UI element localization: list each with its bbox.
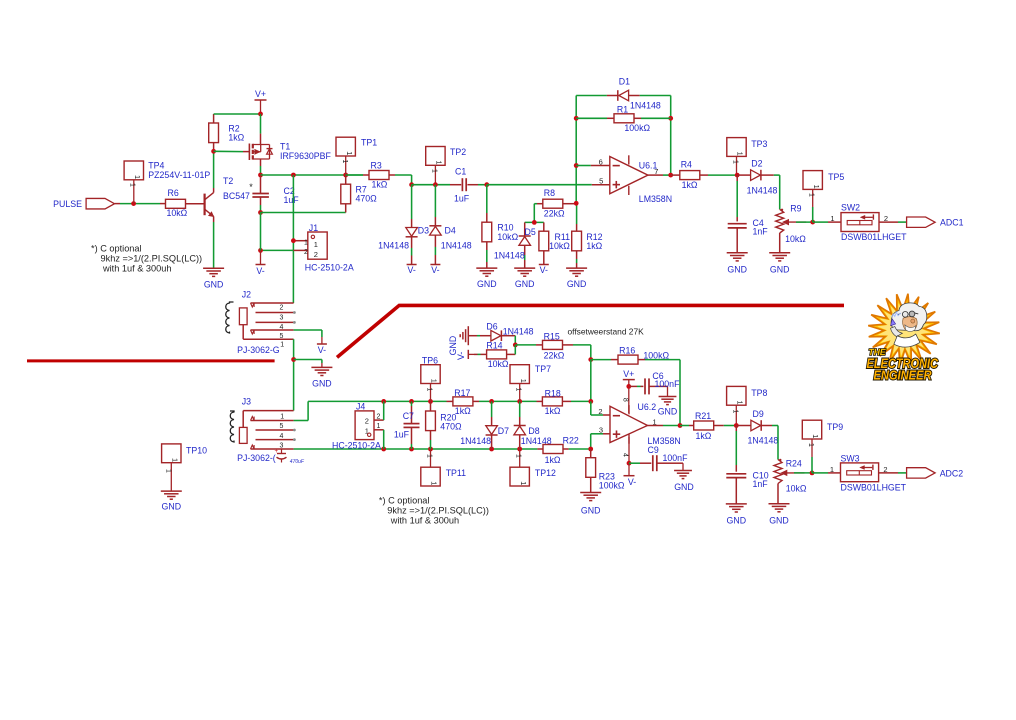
svg-text:D9: D9 xyxy=(753,409,764,419)
svg-text:J4: J4 xyxy=(356,402,365,412)
wire R2 top to V+ xyxy=(214,113,261,115)
svg-text:470Ω: 470Ω xyxy=(356,194,378,204)
ground under R24 xyxy=(769,504,790,526)
svg-text:4: 4 xyxy=(622,453,629,457)
node J1 pin2 wire junction xyxy=(258,248,263,253)
svg-text:ENGINEER: ENGINEER xyxy=(874,367,933,382)
svg-text:D3: D3 xyxy=(418,226,429,236)
svg-text:TP4: TP4 xyxy=(148,160,164,170)
resistor R1 xyxy=(576,104,671,133)
svg-text:1kΩ: 1kΩ xyxy=(545,406,561,416)
wire D2 to R9 xyxy=(774,175,780,209)
wire rail to opamp plus xyxy=(487,184,610,186)
svg-text:TP7: TP7 xyxy=(535,364,551,374)
svg-text:100kΩ: 100kΩ xyxy=(624,123,650,133)
svg-text:1N4148: 1N4148 xyxy=(441,240,472,250)
ground under R23 xyxy=(580,493,601,516)
svg-text:R24: R24 xyxy=(786,458,802,468)
svg-text:10kΩ: 10kΩ xyxy=(488,359,509,369)
svg-text:10kΩ: 10kΩ xyxy=(549,241,570,251)
node rail c7 top xyxy=(409,399,414,404)
node PULSE junction xyxy=(131,201,136,206)
testpoint TP4 xyxy=(124,160,210,203)
svg-text:1: 1 xyxy=(345,151,354,155)
node rail j4 bottom xyxy=(381,447,386,452)
resistor R2 xyxy=(209,114,245,151)
svg-text:GND: GND xyxy=(162,502,182,512)
transistor T1 IRF9630PBF xyxy=(249,141,331,161)
svg-text:T2: T2 xyxy=(223,176,233,186)
svg-text:1kΩ: 1kΩ xyxy=(682,180,698,190)
resistor R7 xyxy=(341,175,377,213)
svg-text:1: 1 xyxy=(807,443,814,447)
wire pin6 xyxy=(576,165,610,167)
svg-text:V+: V+ xyxy=(623,369,634,379)
resistor R20 xyxy=(426,401,462,449)
svg-text:1: 1 xyxy=(515,388,522,392)
svg-text:1: 1 xyxy=(129,183,136,187)
resistor R8 xyxy=(534,188,576,222)
svg-text:1: 1 xyxy=(812,185,821,189)
diode D8 xyxy=(514,401,552,449)
svg-text:IRF9630PBF: IRF9630PBF xyxy=(280,151,331,161)
node fb left R8 xyxy=(574,201,579,206)
wire D6 corner xyxy=(514,336,516,345)
resistor R18 xyxy=(537,388,572,416)
svg-text:1: 1 xyxy=(365,427,369,436)
svg-text:GND: GND xyxy=(477,279,497,289)
capacitor C6 xyxy=(629,371,680,396)
wire R9 wiper xyxy=(796,221,813,223)
svg-text:1: 1 xyxy=(808,193,815,197)
svg-text:1: 1 xyxy=(811,434,820,438)
svg-text:GND: GND xyxy=(567,279,587,289)
transistor T2 BC547 xyxy=(205,176,250,217)
svg-text:3: 3 xyxy=(280,442,284,449)
ground under C6 xyxy=(658,397,678,417)
wire pin3 xyxy=(591,434,610,449)
svg-text:TP2: TP2 xyxy=(450,147,466,157)
svg-text:2: 2 xyxy=(598,407,602,416)
svg-text:1: 1 xyxy=(280,413,284,420)
svg-text:LM358N: LM358N xyxy=(639,194,672,204)
svg-text:GND: GND xyxy=(581,506,601,516)
svg-text:4: 4 xyxy=(280,433,284,440)
svg-text:1kΩ: 1kΩ xyxy=(545,455,561,465)
wire D1 row right xyxy=(629,95,671,97)
svg-text:V-: V- xyxy=(318,345,326,355)
svg-text:9khz =>1/(2.PI.SQL(LC)): 9khz =>1/(2.PI.SQL(LC)) xyxy=(387,506,489,516)
wire R3 corner down xyxy=(411,175,413,185)
svg-text:100nF: 100nF xyxy=(655,379,681,389)
diode D7 xyxy=(460,401,509,449)
wire bottom top rail xyxy=(308,400,591,402)
ground under TP10 xyxy=(161,491,182,511)
wire T1 drain xyxy=(260,159,262,175)
potentiometer R24 xyxy=(774,458,807,503)
svg-text:1: 1 xyxy=(314,240,318,249)
svg-text:TP3: TP3 xyxy=(751,139,767,149)
wire signal rail xyxy=(412,184,450,186)
wire D5 R11 link xyxy=(525,221,544,223)
svg-text:2: 2 xyxy=(304,249,308,256)
node fb left pin6 xyxy=(574,163,579,168)
ground under R12 xyxy=(566,268,587,289)
svg-text:1: 1 xyxy=(426,454,433,458)
op-amp U6.2 LM358N xyxy=(598,402,680,446)
svg-text:C1: C1 xyxy=(455,167,466,177)
svg-text:1: 1 xyxy=(430,481,439,485)
capacitor C4 xyxy=(728,175,769,253)
svg-text:1: 1 xyxy=(515,454,522,458)
resistor R17 xyxy=(447,388,480,416)
capacitor C7 xyxy=(394,401,420,449)
node offset junction xyxy=(513,343,518,348)
node rail d7 bottom xyxy=(489,447,494,452)
svg-text:D8: D8 xyxy=(528,426,539,436)
wire bottom bottom rail xyxy=(294,448,591,450)
svg-text:1: 1 xyxy=(280,341,284,348)
node rail junction c xyxy=(343,173,348,178)
node rail junction b xyxy=(291,173,296,178)
svg-text:R14: R14 xyxy=(486,341,502,351)
annotation red line diagonal xyxy=(337,305,844,357)
node TP8 junction xyxy=(734,423,739,428)
svg-text:V-: V- xyxy=(431,265,439,275)
diode D4 xyxy=(429,185,471,265)
svg-text:HC-2510-2A: HC-2510-2A xyxy=(332,440,381,450)
svg-text:V-: V- xyxy=(256,266,264,276)
svg-text:GND: GND xyxy=(204,280,224,290)
node signal junction d4 xyxy=(433,182,438,187)
svg-text:1nF: 1nF xyxy=(753,479,769,489)
ground under C10 xyxy=(726,504,747,526)
node R16 junction xyxy=(588,357,593,362)
svg-text:9khz =>1/(2.PI.SQL(LC)): 9khz =>1/(2.PI.SQL(LC)) xyxy=(101,254,203,264)
svg-text:5: 5 xyxy=(280,423,284,430)
svg-text:TP12: TP12 xyxy=(535,468,556,478)
svg-text:1: 1 xyxy=(736,152,745,156)
resistor R4 xyxy=(671,160,738,190)
svg-text:offsetweerstand 27K: offsetweerstand 27K xyxy=(568,326,645,336)
power V- at U6.2 xyxy=(624,463,637,487)
svg-text:T1: T1 xyxy=(280,141,290,151)
power V+ at U6.2 xyxy=(623,369,635,386)
resistor R14 xyxy=(474,341,515,370)
svg-text:D1: D1 xyxy=(619,77,630,87)
svg-text:2: 2 xyxy=(314,250,318,259)
connector J4 HC-2510-2A xyxy=(332,401,384,450)
svg-text:1: 1 xyxy=(736,400,745,404)
svg-text:R21: R21 xyxy=(695,411,711,421)
svg-text:1: 1 xyxy=(519,379,528,383)
svg-text:TP1: TP1 xyxy=(361,137,377,147)
svg-text:2: 2 xyxy=(377,414,381,421)
power V+ xyxy=(255,89,267,114)
svg-text:470Ω: 470Ω xyxy=(440,422,462,432)
svg-text:100kΩ: 100kΩ xyxy=(599,481,625,491)
svg-text:R17: R17 xyxy=(454,388,470,398)
svg-text:2: 2 xyxy=(365,417,369,426)
svg-text:4: 4 xyxy=(280,324,284,331)
power V- under C2 node xyxy=(256,250,266,276)
node drain junction xyxy=(258,173,263,178)
wire R15 corner down xyxy=(590,345,592,360)
svg-text:V-: V- xyxy=(628,477,636,487)
input flag PULSE xyxy=(53,198,114,209)
node J1 pin1 junction xyxy=(291,238,296,243)
power V- under D4 xyxy=(430,265,440,276)
diode D1 xyxy=(618,77,661,111)
node rail r20 top xyxy=(428,399,433,404)
svg-text:+: + xyxy=(274,449,278,455)
svg-text:R15: R15 xyxy=(544,332,560,342)
diode D3 xyxy=(378,185,429,265)
svg-text:1kΩ: 1kΩ xyxy=(372,180,388,190)
node fb left R1 xyxy=(574,116,579,121)
svg-text:5: 5 xyxy=(599,177,603,186)
connector J1 HC-2510-2A xyxy=(293,223,353,273)
text offsetweerstand xyxy=(568,326,645,336)
resistor R11 xyxy=(539,222,570,264)
svg-text:R1: R1 xyxy=(617,104,628,114)
wire R24 wiper xyxy=(794,472,812,474)
svg-text:1kΩ: 1kΩ xyxy=(455,406,471,416)
svg-text:PULSE: PULSE xyxy=(53,199,82,209)
svg-text:1: 1 xyxy=(304,239,308,246)
svg-text:D4: D4 xyxy=(445,226,456,236)
wire R16 to opamp out xyxy=(679,360,681,426)
svg-text:with 1uf & 300uh: with 1uf & 300uh xyxy=(390,515,459,525)
output flag ADC2 xyxy=(907,468,964,479)
testpoint TP3 xyxy=(727,138,768,176)
wire pin4 xyxy=(622,437,629,463)
svg-text:5: 5 xyxy=(280,333,284,340)
svg-text:1N4148: 1N4148 xyxy=(378,240,409,250)
svg-text:V-: V- xyxy=(540,265,548,275)
svg-text:PJ-3062-(: PJ-3062-( xyxy=(237,453,276,463)
node rail j4 top xyxy=(381,399,386,404)
svg-text:1: 1 xyxy=(519,481,528,485)
svg-text:SW3: SW3 xyxy=(841,453,860,463)
svg-text:100nF: 100nF xyxy=(663,453,689,463)
svg-text:TP9: TP9 xyxy=(827,422,843,432)
svg-text:ADC2: ADC2 xyxy=(940,468,964,478)
svg-text:C9: C9 xyxy=(648,445,659,455)
svg-text:C7: C7 xyxy=(403,411,414,421)
node rail d7 top xyxy=(489,399,494,404)
svg-text:TP11: TP11 xyxy=(446,468,466,478)
wire opamp2 out xyxy=(648,425,681,427)
svg-text:D6: D6 xyxy=(486,322,497,332)
power V- under D3 xyxy=(407,265,417,276)
node J2 gnd junction xyxy=(291,357,296,362)
svg-text:GND: GND xyxy=(674,482,694,492)
ground under R10 xyxy=(476,268,497,289)
node TP3 junction xyxy=(735,173,740,178)
testpoint TP10 xyxy=(162,444,208,491)
wire T2 emitter xyxy=(213,216,215,268)
ground at J2 xyxy=(311,367,332,388)
svg-text:*: * xyxy=(249,182,253,192)
svg-text:100kΩ: 100kΩ xyxy=(643,350,669,360)
diode D9 xyxy=(736,409,778,445)
svg-text:1: 1 xyxy=(830,214,834,223)
text note top xyxy=(91,244,202,274)
testpoint TP6 xyxy=(421,356,440,402)
node fb right R1 xyxy=(668,116,673,121)
svg-text:*) C optional: *) C optional xyxy=(91,244,142,254)
wire J2 pin1 down xyxy=(293,339,295,410)
svg-text:22kΩ: 22kΩ xyxy=(544,208,565,218)
svg-text:J1: J1 xyxy=(309,223,318,233)
node C1 right junction xyxy=(484,182,489,187)
svg-text:1: 1 xyxy=(426,388,433,392)
node rail r20 bottom xyxy=(428,447,433,452)
resistor R22 xyxy=(537,435,578,465)
svg-text:1uF: 1uF xyxy=(284,195,300,205)
logo electronic engineer xyxy=(867,294,940,383)
svg-text:1: 1 xyxy=(731,410,738,414)
svg-text:1: 1 xyxy=(171,458,180,462)
svg-text:1: 1 xyxy=(830,465,834,474)
node rail d8 bottom xyxy=(517,447,522,452)
svg-text:1kΩ: 1kΩ xyxy=(228,132,244,142)
ground under R9 xyxy=(769,253,790,274)
testpoint TP1 xyxy=(336,137,377,175)
wire C2 node down xyxy=(260,213,262,251)
node opamp1 out junction xyxy=(668,173,673,178)
output flag ADC1 xyxy=(907,217,964,228)
annotation red line left xyxy=(27,359,275,362)
svg-text:1N4148: 1N4148 xyxy=(748,435,779,445)
svg-text:R3: R3 xyxy=(371,161,382,171)
svg-text:ADC1: ADC1 xyxy=(940,218,964,228)
svg-text:PZ254V-11-01P: PZ254V-11-01P xyxy=(148,170,210,180)
svg-text:1: 1 xyxy=(732,160,739,164)
diode D2 xyxy=(737,159,777,196)
power V- under R11 xyxy=(539,265,549,276)
node R8 bottom junction xyxy=(532,220,537,225)
svg-text:1: 1 xyxy=(164,469,171,473)
node wiper junction xyxy=(810,220,815,225)
svg-text:22kΩ: 22kΩ xyxy=(544,350,565,360)
wire opamp1 output xyxy=(648,174,671,176)
wire gate xyxy=(214,150,250,152)
svg-text:GND: GND xyxy=(727,264,747,274)
op-amp U6.1 LM358N xyxy=(599,155,672,204)
capacitor C10 xyxy=(726,426,768,504)
svg-text:J2: J2 xyxy=(242,289,251,299)
svg-text:U6.2: U6.2 xyxy=(638,402,657,412)
text note bottom xyxy=(379,496,489,526)
testpoint TP5 xyxy=(803,171,844,223)
node pin3 junction xyxy=(588,447,593,452)
testpoint TP2 xyxy=(426,147,467,185)
svg-text:R8: R8 xyxy=(544,188,555,198)
svg-text:TP10: TP10 xyxy=(186,445,207,455)
ground under T2 xyxy=(203,268,224,289)
svg-text:1kΩ: 1kΩ xyxy=(586,241,602,251)
svg-text:GND: GND xyxy=(312,378,332,388)
svg-text:SW2: SW2 xyxy=(841,203,860,213)
connector J3 PJ-3062-G xyxy=(230,397,296,464)
svg-text:10kΩ: 10kΩ xyxy=(167,208,188,218)
svg-text:DSWB01LHGET: DSWB01LHGET xyxy=(841,232,907,242)
svg-text:1: 1 xyxy=(430,379,439,383)
node rail c7 bottom xyxy=(409,447,414,452)
svg-text:2: 2 xyxy=(280,305,284,312)
node pin2 junction xyxy=(588,399,593,404)
svg-text:J3: J3 xyxy=(242,397,251,407)
node gate junction xyxy=(211,149,216,154)
svg-text:GND: GND xyxy=(727,515,747,525)
svg-text:PJ-3062-G: PJ-3062-G xyxy=(237,345,280,355)
potentiometer R9 xyxy=(776,203,807,253)
svg-text:1N4148: 1N4148 xyxy=(747,185,778,195)
svg-text:1kΩ: 1kΩ xyxy=(696,431,712,441)
svg-text:TP8: TP8 xyxy=(751,388,767,398)
svg-text:8: 8 xyxy=(621,398,628,402)
ground under D5 xyxy=(514,268,535,289)
svg-text:with 1uf & 300uh: with 1uf & 300uh xyxy=(102,263,171,273)
wire drain rail xyxy=(261,174,364,176)
wire J3 pin5 up xyxy=(294,401,309,420)
svg-text:R6: R6 xyxy=(168,188,179,198)
power V- at J2 xyxy=(317,344,327,355)
resistor R16 xyxy=(591,346,680,365)
node pin4 junction xyxy=(627,461,632,466)
node signal junction d3 xyxy=(409,182,414,187)
testpoint TP9 xyxy=(802,420,843,473)
wire gnd link xyxy=(294,360,322,368)
switch SW3 DSWB01LHGET xyxy=(812,453,907,492)
svg-text:1: 1 xyxy=(430,169,437,173)
svg-text:1uF: 1uF xyxy=(454,194,470,204)
svg-text:1nF: 1nF xyxy=(753,227,769,237)
svg-text:GND: GND xyxy=(770,264,790,274)
switch SW2 DSWB01LHGET xyxy=(813,203,907,242)
resistor R21 xyxy=(680,411,736,441)
svg-text:1: 1 xyxy=(133,175,142,179)
svg-text:GND: GND xyxy=(515,279,535,289)
capacitor C9 xyxy=(629,445,688,471)
svg-text:1N4148: 1N4148 xyxy=(494,251,525,261)
testpoint TP12 xyxy=(510,449,556,486)
svg-text:R16: R16 xyxy=(619,346,635,356)
svg-text:1: 1 xyxy=(435,161,444,165)
node wiper2 junction xyxy=(810,471,815,476)
svg-text:*) C optional: *) C optional xyxy=(379,496,430,506)
svg-text:D7: D7 xyxy=(498,426,509,436)
wire C2 bottom rail xyxy=(261,212,346,214)
svg-text:1N4148: 1N4148 xyxy=(630,100,661,110)
svg-text:V-: V- xyxy=(407,265,415,275)
capacitor C1 xyxy=(450,167,487,204)
svg-text:3: 3 xyxy=(599,425,603,434)
diode D6 xyxy=(468,322,533,341)
svg-text:D2: D2 xyxy=(751,159,762,169)
svg-text:GND: GND xyxy=(658,406,678,416)
resistor R10 xyxy=(482,185,519,268)
wire D1 row left xyxy=(576,95,618,97)
svg-text:10kΩ: 10kΩ xyxy=(497,232,518,242)
capacitor C2 xyxy=(249,175,299,213)
resistor R15 xyxy=(515,332,591,361)
svg-text:1: 1 xyxy=(341,160,348,164)
svg-text:1N4148: 1N4148 xyxy=(460,436,491,446)
wire vertical tip net xyxy=(292,175,294,303)
